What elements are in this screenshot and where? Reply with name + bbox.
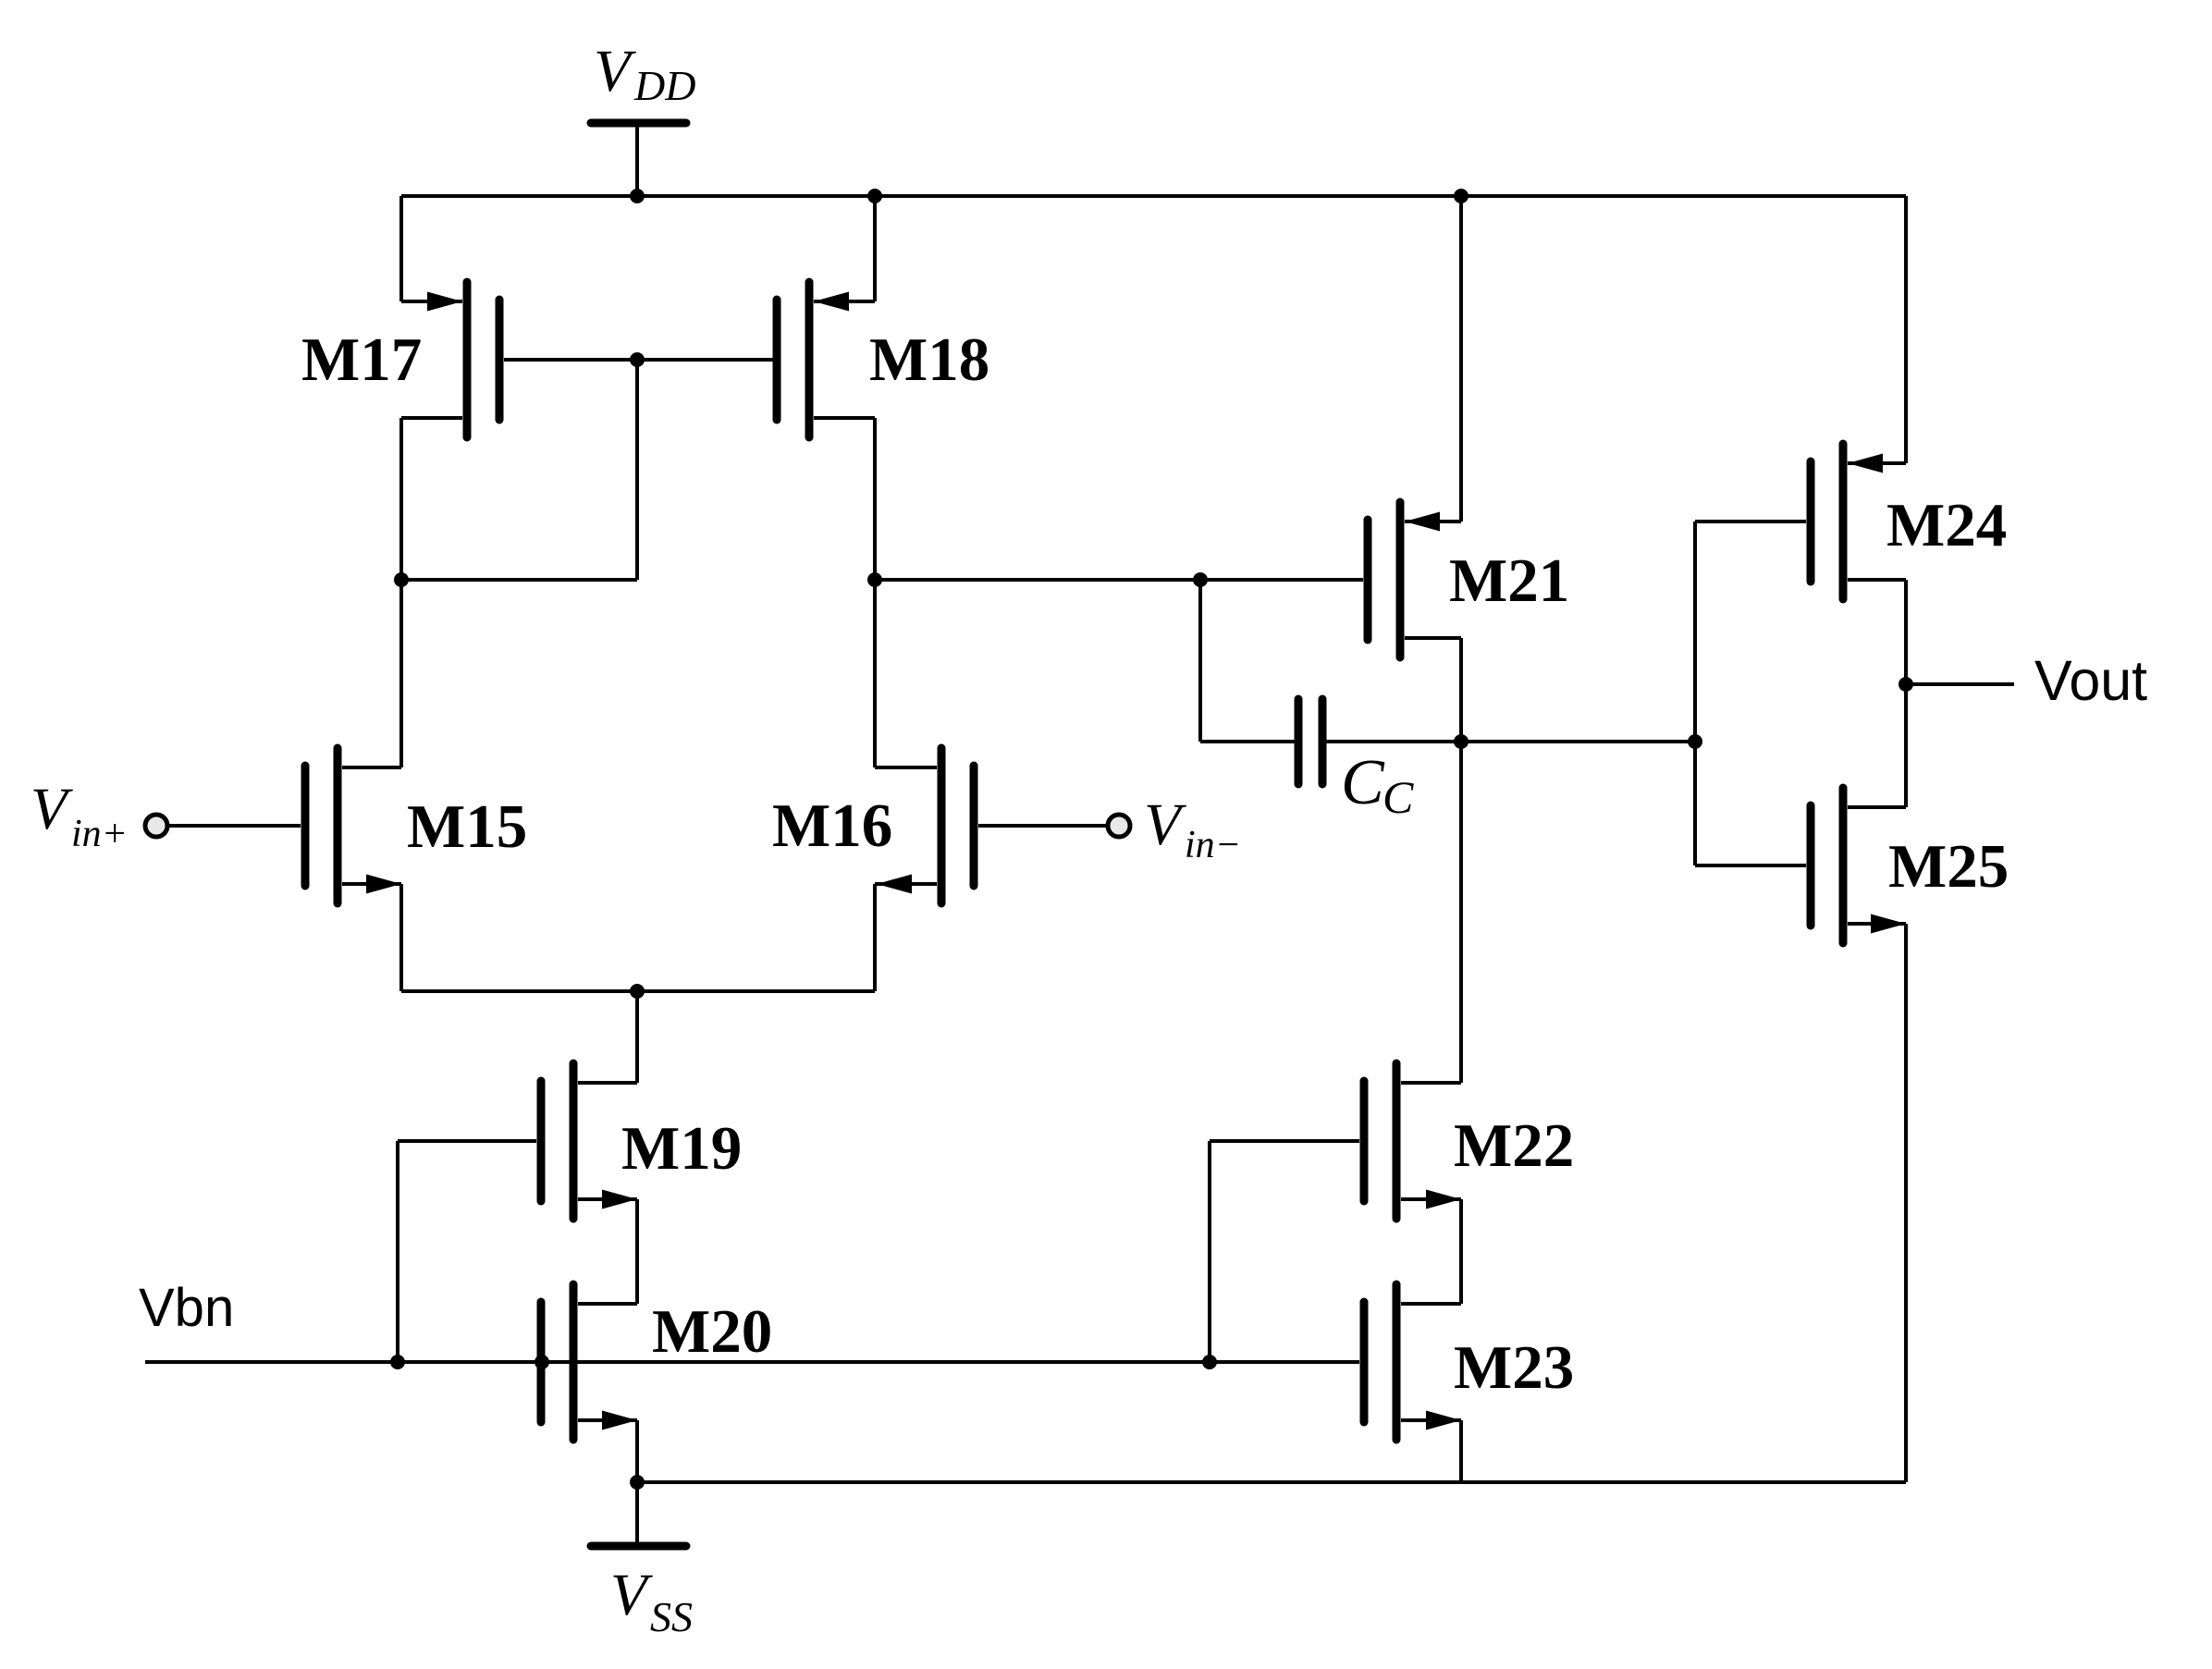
svg-text:M15: M15 [407,792,527,861]
svg-text:M19: M19 [621,1114,742,1183]
svg-text:M23: M23 [1454,1333,1574,1402]
svg-text:M16: M16 [772,792,892,860]
svg-text:M17: M17 [301,325,422,394]
svg-text:V: V [31,776,73,842]
svg-text:C: C [1341,747,1385,818]
svg-text:C: C [1382,771,1414,823]
svg-text:M18: M18 [869,325,989,394]
svg-text:V: V [1144,792,1186,858]
svg-text:in−: in− [1185,824,1241,866]
svg-text:M21: M21 [1449,546,1569,615]
svg-text:M22: M22 [1454,1111,1574,1180]
svg-text:V: V [594,38,636,104]
svg-text:DD: DD [633,62,695,109]
svg-text:M25: M25 [1888,832,2009,901]
svg-text:M20: M20 [652,1297,772,1366]
svg-text:M24: M24 [1886,491,2007,559]
svg-text:Vbn: Vbn [139,1278,234,1338]
svg-text:Vout: Vout [2034,649,2147,712]
svg-text:SS: SS [650,1593,693,1640]
svg-text:V: V [610,1562,653,1628]
svg-text:in+: in+ [71,813,128,855]
